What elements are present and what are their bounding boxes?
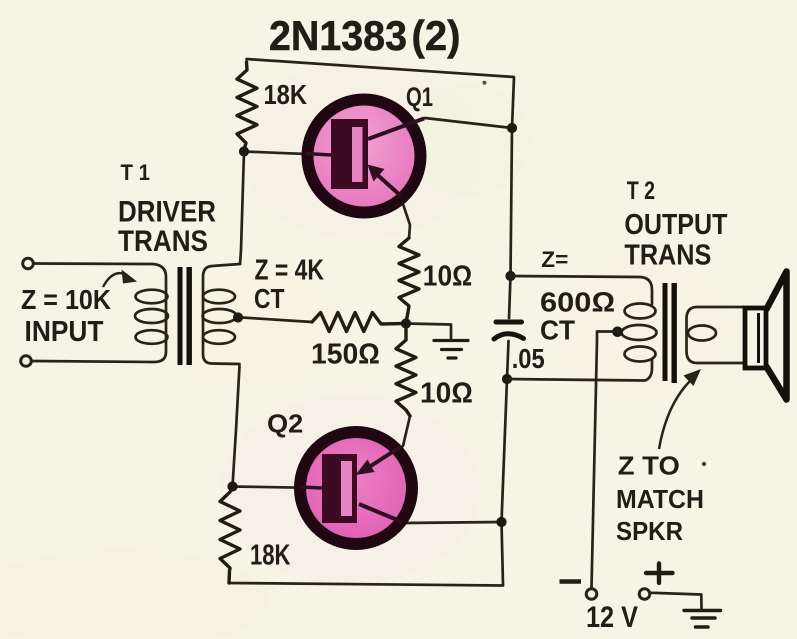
- transformer T2 secondary winding: [687, 307, 744, 363]
- svg-text:Z=: Z=: [541, 247, 568, 272]
- resistor R3 10-ohm upper: [399, 238, 419, 324]
- node Q2 base junction: [227, 481, 237, 491]
- transformer T1 secondary winding loops: [203, 290, 237, 344]
- svg-text:OUTPUT: OUTPUT: [624, 209, 728, 241]
- transistor Q1 body: [308, 100, 421, 213]
- speaker cone: [766, 272, 787, 400]
- transistor Q2 base lead inside: [300, 487, 322, 488]
- transistor Q2 base bar: [322, 454, 357, 523]
- transistor Q2 collector lead inside: [359, 504, 402, 522]
- wire Q1 emitter down to R3: [370, 169, 410, 238]
- svg-text:DRIVER: DRIVER: [118, 196, 216, 229]
- node Q2 collector junction: [496, 517, 506, 527]
- speck near Z TO: [702, 462, 706, 466]
- transformer T2 primary winding loops: [622, 304, 657, 362]
- svg-text:(2): (2): [412, 12, 461, 59]
- speck top right: [483, 81, 487, 85]
- svg-text:10Ω: 10Ω: [420, 378, 473, 410]
- svg-text:Q1: Q1: [406, 82, 433, 112]
- transformer T1 core bars: [178, 267, 183, 365]
- wire Q2 collector to right vertical: [359, 504, 502, 523]
- node T1 center tap: [233, 312, 243, 322]
- wire bottom rail: [229, 583, 503, 586]
- svg-text:CT: CT: [540, 315, 575, 346]
- transistor Q1 base bar: [331, 119, 368, 189]
- arrow Z-to-match pointing to speaker winding: [659, 379, 692, 449]
- svg-text:Z = 10K: Z = 10K: [21, 284, 111, 315]
- capacitor C1 .05 top plate: [496, 320, 522, 325]
- node Q1 collector junction: [507, 123, 517, 133]
- wire left vertical from T1 secondary bottom to Q2 base junction: [233, 366, 240, 487]
- svg-text:TRANS: TRANS: [118, 225, 208, 258]
- battery minus terminal: [586, 589, 597, 600]
- transistor Q2 body: [300, 432, 412, 544]
- transistor Q1 base lead inside: [306, 154, 331, 156]
- ground symbol center: [434, 341, 468, 359]
- wire top rail from 18K to right vertical: [247, 59, 515, 128]
- wire Q1 base from junction: [244, 152, 331, 156]
- wire T2 primary bottom to cap-bottom junction: [507, 360, 652, 381]
- node T2 center tap: [612, 327, 623, 338]
- capacitor C1 .05 bottom plate: [494, 334, 524, 339]
- svg-text:Z TO: Z TO: [618, 451, 680, 481]
- transformer T2 secondary loop: [688, 326, 716, 341]
- wire CT of T1 to 150-ohm: [242, 318, 312, 323]
- ground symbol battery: [684, 611, 721, 628]
- node capacitor bottom junction: [502, 374, 512, 384]
- battery plus sign: [646, 564, 673, 584]
- svg-text:2N1383: 2N1383: [269, 12, 407, 59]
- wire Q1 collector to right rail: [368, 118, 512, 138]
- battery plus terminal: [639, 589, 650, 600]
- transistor Q1 collector lead inside: [368, 119, 424, 140]
- svg-text:Q2: Q2: [267, 409, 303, 439]
- svg-text:MATCH: MATCH: [616, 484, 704, 514]
- transistor Q2 emitter lead inside with arrow: [366, 447, 401, 470]
- svg-text:18K: 18K: [264, 79, 308, 110]
- svg-text:INPUT: INPUT: [25, 316, 104, 348]
- svg-text:SPKR: SPKR: [616, 516, 683, 546]
- resistor R4 10-ohm lower: [396, 324, 416, 417]
- svg-text:150Ω: 150Ω: [311, 339, 380, 371]
- wire T1 secondary top connector: [203, 264, 240, 364]
- svg-text:18K: 18K: [250, 540, 291, 572]
- resistor R5 150-ohm: [312, 313, 406, 332]
- svg-text:10Ω: 10Ω: [423, 261, 473, 293]
- svg-text:Z = 4K: Z = 4K: [255, 255, 325, 287]
- wire right vertical upper (collector junction to cap top): [509, 128, 512, 318]
- svg-text:.05: .05: [512, 343, 545, 374]
- wire input upper to T1 primary: [32, 264, 167, 363]
- input terminal upper: [23, 258, 34, 269]
- wire battery plus to ground: [652, 593, 702, 609]
- node center junction of resistors: [401, 318, 411, 328]
- speaker driver: [745, 308, 766, 368]
- svg-text:CT: CT: [254, 283, 285, 314]
- wire to ground stub: [406, 324, 451, 339]
- wire Q2 emitter up to R4: [359, 416, 410, 473]
- node Q1 base junction: [239, 146, 249, 156]
- resistor R1 18K upper: [237, 62, 257, 150]
- speaker driver inner line: [757, 313, 760, 363]
- transformer T2 core bars: [663, 283, 668, 381]
- arrow over T1 primary: [103, 273, 127, 287]
- resistor R2 18K lower: [220, 487, 240, 583]
- battery minus sign: [560, 579, 582, 584]
- svg-text:T 1: T 1: [121, 160, 151, 185]
- svg-text:12 V: 12 V: [586, 601, 638, 634]
- transformer T1 primary winding loops: [135, 290, 168, 344]
- node capacitor top junction: [505, 271, 515, 281]
- transistor Q1 emitter lead inside with arrow: [372, 170, 401, 196]
- wire Q2 base from junction: [233, 487, 323, 489]
- wire T2 center tap down to battery minus: [592, 332, 619, 589]
- wire right vertical lower (cap bottom to bottom rail): [502, 341, 509, 585]
- wire left vertical from Q1 base junction down to T1 secondary top: [240, 152, 244, 265]
- svg-text:600Ω: 600Ω: [540, 287, 615, 318]
- wire T2 primary top from cap-top junction: [511, 276, 653, 304]
- svg-text:TRANS: TRANS: [624, 240, 711, 272]
- svg-text:T 2: T 2: [627, 177, 655, 205]
- input terminal lower: [21, 356, 32, 367]
